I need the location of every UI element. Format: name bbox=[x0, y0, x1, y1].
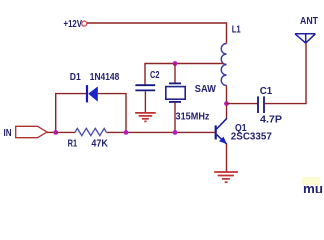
svg-text:1N4148: 1N4148 bbox=[90, 72, 120, 83]
wire SAW bottom lead bbox=[174, 102, 176, 132]
wire L1 bottom down to collector bbox=[226, 86, 228, 119]
svg-text:IN: IN bbox=[4, 128, 12, 139]
diode D1 bbox=[70, 72, 120, 102]
ground under Q1 emitter bbox=[214, 172, 238, 182]
ground under C2 bbox=[135, 113, 156, 122]
wire C2 bottom lead bbox=[144, 91, 146, 112]
wire C1 to antenna bbox=[265, 43, 307, 104]
svg-text:ANT: ANT bbox=[300, 16, 318, 27]
wire R1 to base rail bbox=[106, 131, 214, 133]
wire node to R1 bbox=[56, 131, 75, 133]
svg-text:47K: 47K bbox=[91, 138, 108, 149]
wire IN tip to node bbox=[47, 131, 56, 133]
SAW resonator bbox=[166, 83, 217, 122]
node junction dot IN/D1 bbox=[53, 130, 58, 135]
inductor L1 bbox=[221, 25, 241, 86]
wire emitter to ground bbox=[226, 144, 228, 171]
wire D1 loop top-right and right bbox=[98, 94, 126, 133]
node junction dot SAW/base rail bbox=[173, 130, 178, 135]
svg-text:+12V: +12V bbox=[64, 19, 83, 30]
svg-text:R1: R1 bbox=[68, 138, 78, 149]
transistor Q1 bbox=[216, 118, 273, 144]
wire D1 loop left and top-left bbox=[56, 94, 86, 133]
resistor R1 bbox=[68, 128, 109, 149]
port IN connector bbox=[4, 126, 48, 139]
antenna ANT bbox=[295, 16, 318, 43]
node junction dot D1 loop/base rail bbox=[124, 130, 129, 135]
node +12V power port circle bbox=[82, 21, 87, 26]
svg-text:L1: L1 bbox=[232, 25, 241, 36]
capacitor C1 bbox=[258, 86, 282, 126]
wire tank tap rail and C2 top lead bbox=[145, 64, 223, 85]
svg-text:SAW: SAW bbox=[195, 84, 217, 95]
capacitor C2 bbox=[135, 70, 159, 90]
svg-text:C1: C1 bbox=[260, 86, 273, 97]
wire SAW top lead bbox=[174, 64, 176, 84]
svg-text:2SC3357: 2SC3357 bbox=[231, 131, 272, 142]
svg-text:mu: mu bbox=[303, 181, 323, 193]
svg-text:C2: C2 bbox=[150, 70, 160, 81]
wire +12V rail to L1 top bbox=[87, 23, 227, 44]
svg-text:D1: D1 bbox=[70, 72, 81, 83]
node junction dot rail/SAW bbox=[173, 61, 178, 66]
node junction dot collector/C1 bbox=[224, 101, 229, 106]
watermark yellow patch bbox=[302, 177, 320, 185]
svg-text:315MHz: 315MHz bbox=[176, 111, 210, 122]
wire collector node to C1 bbox=[227, 103, 258, 105]
svg-text:4.7P: 4.7P bbox=[260, 115, 282, 126]
